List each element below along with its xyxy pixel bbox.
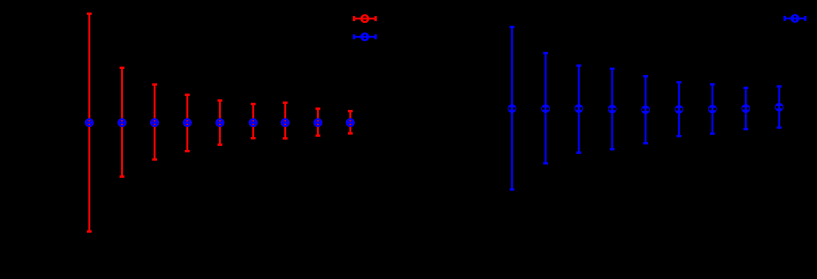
right panel blue marker point 1 (508, 104, 517, 113)
right panel blue marker point 6 (675, 105, 684, 114)
left panel blue marker point 1 (86, 119, 93, 126)
right panel blue marker point 8 (741, 104, 750, 113)
left panel red errorbar point 1 (87, 14, 92, 232)
left panel red errorbar point 4 (185, 95, 190, 151)
right panel blue errorbar point 8 (743, 88, 748, 129)
right panel blue errorbar point 6 (677, 82, 682, 136)
left panel red errorbar point 7 (283, 103, 288, 139)
left panel blue marker point 5 (217, 119, 224, 126)
right panel blue errorbar point 7 (710, 84, 715, 133)
right panel blue errorbar point 4 (610, 69, 615, 149)
left panel red errorbar point 8 (316, 109, 321, 136)
left panel blue marker point 6 (250, 119, 257, 126)
left legend blue errorbar sample (354, 33, 376, 40)
right panel blue marker point 2 (541, 104, 550, 113)
right panel blue marker point 3 (574, 104, 583, 113)
left legend red errorbar sample (354, 15, 376, 22)
right panel blue marker point 9 (775, 103, 784, 112)
left panel blue marker point 9 (347, 119, 354, 126)
left panel blue marker point 7 (282, 119, 289, 126)
right panel blue errorbar point 9 (777, 86, 782, 127)
right panel blue marker point 5 (641, 105, 650, 114)
left panel blue marker point 8 (315, 119, 322, 126)
left panel blue marker point 2 (119, 119, 126, 126)
right panel blue errorbar point 2 (543, 53, 548, 163)
right panel blue marker point 7 (708, 105, 717, 114)
right legend blue errorbar sample (785, 15, 806, 22)
right panel blue errorbar point 3 (576, 66, 581, 153)
left panel blue marker point 4 (184, 119, 191, 126)
left panel red errorbar point 5 (218, 101, 223, 145)
left panel red errorbar point 6 (251, 104, 256, 138)
right panel blue marker point 4 (608, 105, 617, 114)
right panel blue errorbar point 1 (510, 27, 515, 190)
left panel red errorbar point 3 (152, 85, 157, 160)
left panel red errorbar point 2 (120, 68, 125, 177)
right panel blue errorbar point 5 (643, 76, 648, 143)
left panel red errorbar point 9 (348, 111, 353, 133)
left panel blue marker point 3 (151, 119, 158, 126)
